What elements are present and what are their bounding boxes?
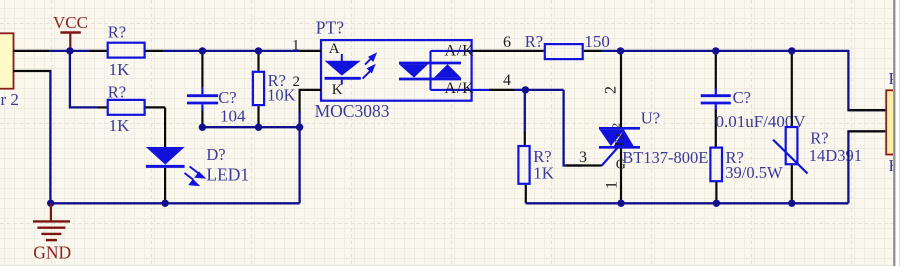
application panel edge (right) [893,0,900,266]
svg-text:C?: C? [733,88,751,107]
opto pin 4 (A/K bottom) [445,72,515,97]
svg-text:D?: D? [206,145,225,164]
svg-text:A: A [329,41,340,57]
svg-text:150: 150 [584,32,610,51]
resistor R6 (150) [521,32,610,59]
opto internal light arrows [363,54,376,78]
svg-text:R?: R? [525,32,543,51]
node C1 top junction [199,47,206,54]
svg-text:MOC3083: MOC3083 [315,101,390,121]
connector P1 pin 1 [848,109,885,111]
pin 1 of J1 [14,50,50,52]
svg-text:2: 2 [611,123,623,129]
svg-text:VCC: VCC [53,13,88,32]
wire VCC junction down to R2 [70,51,97,108]
ground GND symbol [33,203,71,262]
connector J1 (Header 2, left edge) [0,33,14,88]
wire pin4 down to triac gate [564,90,582,166]
svg-text:R?: R? [108,23,126,42]
opto internal triac [399,51,489,90]
capacitor C2 (0.01uF/400V) [701,51,807,147]
node varistor top junction [788,47,795,54]
svg-text:104: 104 [220,107,246,126]
LED D1 [146,145,249,203]
opto pin 1 (A) [292,38,340,58]
svg-text:R?: R? [810,129,828,148]
node R4 top junction [522,86,529,93]
connector P1 (Header 2, right edge) [886,90,895,154]
node R3 top junction [255,47,262,54]
wire R2 down to LED D1 [164,107,166,147]
svg-text:3: 3 [579,149,587,166]
LED D1 light arrows [185,167,204,186]
wire C1/R3 bottom row to opto pin2 drop [202,126,299,128]
optocoupler U1 MOC3083 box [315,17,472,121]
svg-text:r 2: r 2 [1,90,19,109]
node R5 bottom junction [713,200,720,207]
resistor R4 (1K vertical) [518,90,554,203]
svg-text:1K: 1K [109,116,131,135]
node C2 top junction [712,47,719,54]
node triac top junction [617,47,624,54]
svg-text:1: 1 [292,38,300,54]
svg-text:2: 2 [293,74,301,90]
VCC power port [53,13,88,51]
node GND corner junction [47,200,54,207]
triac Q1 BT137-800E [566,51,708,203]
triac bus wire (right side) [526,202,849,204]
svg-text:14D391: 14D391 [809,146,862,165]
connector P1 pin 2 [848,130,885,132]
pin 2 of J1 [14,70,52,72]
bottom window edge [0,265,893,266]
svg-text:4: 4 [503,72,511,89]
resistor R1 (1K horizontal top) [90,23,164,79]
svg-text:U?: U? [641,108,660,127]
GND bus wire (left, isolated side) [50,202,299,204]
resistor R2 (1K horizontal second) [97,83,165,135]
capacitor C1 (104) [187,51,246,127]
wire pin1 J1 to R1 [50,50,90,52]
node R3 bottom junction [255,124,262,131]
svg-text:1K: 1K [533,164,555,183]
svg-text:R?: R? [108,83,126,102]
node C1 bottom junction [199,124,206,131]
svg-text:6: 6 [503,34,511,51]
resistor R5 (39/0.5W vertical) [710,148,783,204]
node pin2-drop junction [296,124,303,131]
svg-text:LED1: LED1 [206,165,249,185]
opto pin 6 (A/K top) [445,34,522,59]
svg-text:2: 2 [603,86,620,94]
svg-text:PT?: PT? [316,17,344,37]
connector P1 designator text [889,69,900,175]
wire opto pin4 run [514,89,564,91]
opto pin 2 (K) [293,74,343,127]
wire pin2 J1 down to GND bus [49,71,51,203]
resistor R3 (10K vertical) [253,51,296,127]
connector J1 comment text "r 2" (Header 2 clipped) [1,90,19,109]
svg-text:GND: GND [33,242,71,262]
wire R6 to top-right corner [601,51,885,110]
wire pin2-drop down to GND bus [298,127,300,203]
svg-text:A/K: A/K [445,42,475,59]
node LED-GND bus junction [161,200,168,207]
svg-text:39/0.5W: 39/0.5W [725,163,783,182]
node varistor bottom junction [788,200,795,207]
svg-text:1K: 1K [109,60,131,79]
svg-text:A/K: A/K [445,80,475,97]
svg-text:BT137-800E: BT137-800E [622,148,708,167]
node VCC junction [66,47,73,54]
wire bus right end up to connector pin2 [848,131,885,203]
varistor RV1 (14D391) [773,51,862,203]
node triac bottom junction [617,200,624,207]
wire R1 to opto pin1 [163,50,300,52]
svg-text:10K: 10K [267,85,296,104]
svg-text:1: 1 [604,181,621,189]
svg-text:C?: C? [218,88,236,107]
opto internal LED [325,54,361,85]
